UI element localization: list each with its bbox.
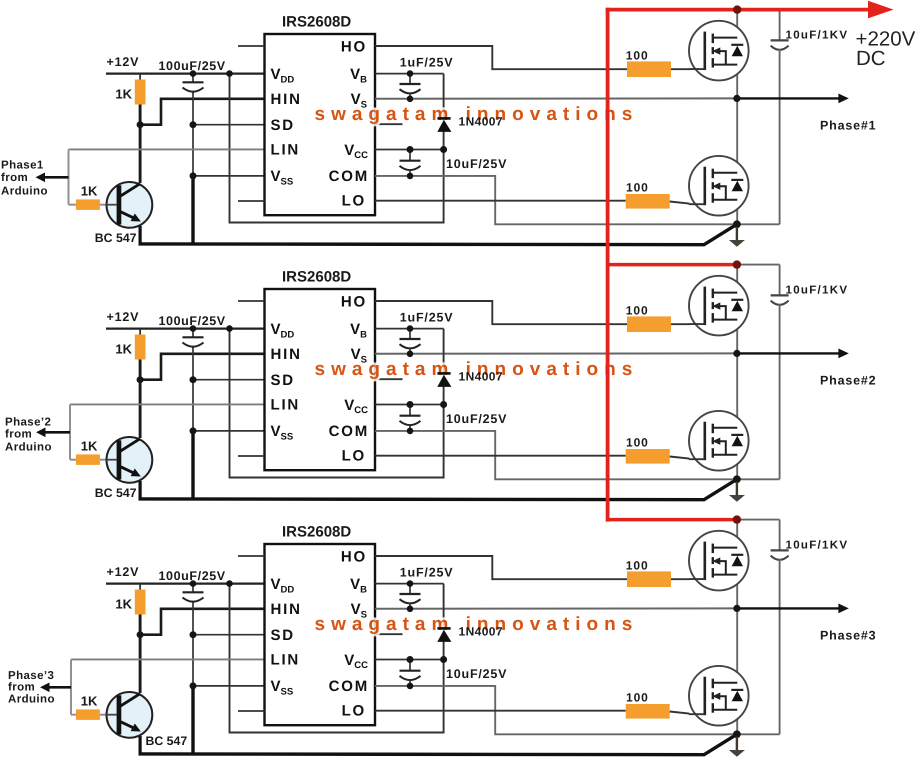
mosfet M3b gate bar	[703, 677, 706, 716]
svg-text:100: 100	[626, 303, 649, 317]
capacitor C3d 10uF/1KV bus	[737, 519, 780, 521]
wire VCC (stage 3)	[375, 659, 444, 661]
wire LO to gate resistor R3d	[375, 710, 626, 712]
wire drain of M1b from phase node	[736, 98, 738, 172]
transistor Q2 base bar	[117, 440, 122, 479]
svg-text:from: from	[1, 172, 28, 184]
wire collector column (stage 2)	[139, 360, 142, 439]
svg-text:Phase’3: Phase’3	[8, 670, 54, 682]
resistor R2c 100 high-side gate	[627, 316, 671, 332]
transistor Q3 emitter stroke with arrow	[120, 721, 134, 728]
wire SD to U3 (stage 3)	[193, 634, 265, 636]
wire +12V feed column (stage 3)	[230, 584, 444, 733]
svg-text:1K: 1K	[115, 342, 132, 357]
transistor Q3 base bar	[117, 695, 122, 734]
wire +12V feed column (stage 2)	[230, 329, 444, 478]
wire base resistor to Q1 (stage 1)	[100, 204, 107, 206]
wire HIN jog from R3a bottom to U3 HIN	[140, 609, 264, 635]
wire input loop vertical (stage 3)	[70, 659, 72, 714]
wire SD to U2 (stage 2)	[193, 379, 265, 381]
wire LIN from input loop to U3	[71, 658, 265, 660]
pin stub right SD-row of U1	[375, 123, 403, 125]
capacitor C3c 10uF/25V	[409, 660, 411, 671]
ground bus (stage 2)	[139, 479, 737, 499]
wire HIN jog from R1a bottom to U1 HIN	[140, 99, 264, 125]
phase output arrow (stage 2)	[737, 352, 839, 354]
resistor R3a 1K collector pull-up	[135, 590, 146, 615]
svg-text:IRS2608D: IRS2608D	[282, 268, 351, 285]
diode D1 1N4007 bootstrap	[437, 117, 450, 120]
mosfet M2b body diode	[731, 434, 743, 436]
svg-text:COM: COM	[329, 168, 369, 185]
capacitor C2b 1uF/25V bootstrap	[409, 329, 411, 339]
wire COM to low-side ground node (stage 2)	[375, 431, 780, 479]
wire R3c to gate of M3a	[671, 578, 689, 580]
capacitor C3a 100uF/25V	[192, 584, 194, 593]
wire +12V feed column (stage 1)	[230, 74, 444, 223]
mosfet M1b body link with arrow	[718, 186, 726, 200]
pin stub top-left of U2	[238, 300, 265, 302]
pin stub right SD-row of U3	[375, 633, 403, 635]
driver IC U2 IRS2608D box	[265, 289, 376, 470]
node dot stage2 DC bus	[733, 260, 741, 268]
transistor Q1 BC547 body	[106, 182, 152, 228]
svg-text:Phase#3: Phase#3	[820, 628, 876, 642]
wire R1c to gate of M1a	[671, 68, 689, 70]
resistor R3d 100 low-side gate	[626, 704, 670, 719]
capacitor C1c 10uF/25V	[409, 150, 411, 161]
wire HO to gate resistor R2c	[375, 301, 627, 324]
wire VB (stage 2)	[375, 328, 444, 330]
pin stub bottom-left of U1	[238, 200, 265, 202]
arrow to Arduino (stage 3)	[49, 686, 72, 689]
wire VSS to U2 (stage 2)	[193, 430, 265, 432]
wire R1a top stub (stage 1)	[139, 74, 141, 81]
ground node dot (stage 2)	[733, 475, 741, 483]
mosfet M2a body link with arrow	[718, 306, 726, 320]
wire +12V rail to VDD (stage 2)	[106, 328, 265, 330]
pin stub top-left of U1	[238, 45, 265, 47]
wire drain of M3b from phase node	[736, 608, 738, 682]
svg-text:BC 547: BC 547	[95, 231, 137, 245]
mosfet M3b body link with arrow	[718, 696, 726, 710]
svg-text:BC 547: BC 547	[146, 734, 188, 748]
node dot stage1 DC bus	[733, 5, 741, 13]
wire input loop vertical (stage 1)	[68, 149, 70, 204]
transistor Q2 BC547 body	[106, 437, 152, 483]
wire base resistor to Q2 (stage 2)	[100, 459, 107, 461]
svg-text:10uF/25V: 10uF/25V	[446, 667, 507, 681]
mosfet M2b body link with arrow	[718, 441, 726, 455]
wire bootstrap diode column (stage 2)	[443, 329, 445, 405]
wire source of M1a to phase node	[736, 65, 738, 99]
wire base resistor to Q3 (stage 3)	[100, 714, 107, 716]
mosfet M1a gate bar	[703, 32, 706, 71]
wire LIN from input loop to U1	[69, 148, 265, 150]
svg-text:SD: SD	[271, 117, 295, 134]
mosfet M1b channel dashes	[712, 169, 714, 179]
mosfet M2a body circle	[689, 276, 749, 336]
mosfet M3a body link with arrow	[718, 561, 726, 575]
svg-text:1uF/25V: 1uF/25V	[400, 55, 454, 69]
wire R1d to gate of M1b	[670, 202, 690, 204]
svg-text:10uF/1KV: 10uF/1KV	[786, 540, 849, 552]
capacitor C3b 1uF/25V bootstrap	[409, 584, 411, 594]
mosfet M3a drain link	[713, 547, 738, 549]
wire HO to gate resistor R1c	[375, 46, 627, 69]
mosfet M3b body diode	[731, 689, 743, 691]
wire source of M2b to ground node	[736, 455, 738, 480]
wire HIN jog from R2a bottom to U2 HIN	[140, 354, 264, 380]
svg-text:1K: 1K	[115, 87, 132, 102]
ground symbol (stage 2)	[736, 482, 738, 495]
transistor Q2 collector stroke	[120, 439, 140, 452]
phase output arrow (stage 3)	[737, 607, 839, 609]
wire LO to gate resistor R1d	[375, 200, 626, 202]
svg-text:1K: 1K	[81, 438, 98, 453]
wire VB (stage 1)	[375, 73, 444, 75]
svg-text:HO: HO	[341, 38, 367, 55]
wire red DC bus top rail	[606, 8, 870, 12]
wire VCC (stage 1)	[375, 149, 444, 151]
svg-text:from: from	[5, 428, 32, 440]
wire source of M1b to ground node	[736, 200, 738, 225]
wire drain of M1a to DC bus	[736, 10, 738, 38]
resistor R2a 1K collector pull-up	[135, 335, 146, 360]
mosfet M2b channel dashes	[712, 424, 714, 434]
wire collector column (stage 1)	[139, 105, 142, 184]
svg-text:HO: HO	[341, 548, 367, 565]
svg-text:LO: LO	[342, 448, 366, 465]
svg-text:Phase’2: Phase’2	[5, 417, 51, 429]
capacitor C1b 1uF/25V bootstrap	[409, 74, 411, 84]
wire emitter of Q1 to ground bus	[139, 226, 142, 244]
mosfet M2a drain link	[713, 292, 738, 294]
capacitor C1a 100uF/25V	[192, 74, 194, 83]
transistor Q2 emitter stroke with arrow	[120, 466, 134, 473]
svg-text:LIN: LIN	[271, 652, 301, 669]
svg-text:Phase1: Phase1	[1, 159, 44, 171]
mosfet M2b gate lead	[689, 458, 705, 460]
svg-text:+12V: +12V	[107, 310, 140, 324]
mosfet M1a gate lead	[689, 68, 705, 70]
ground node dot (stage 1)	[733, 220, 741, 228]
mosfet M3a body diode	[731, 554, 743, 556]
mosfet M3b body circle	[689, 666, 749, 726]
transistor Q3 BC547 body	[106, 692, 152, 738]
wire +12V rail to VDD (stage 3)	[106, 582, 265, 584]
wire red DC bus vertical	[606, 8, 610, 522]
resistor R1b 1K base	[76, 199, 100, 210]
wire drain of M3a to DC bus	[736, 520, 738, 548]
svg-text:100: 100	[626, 558, 649, 572]
transistor Q1 collector stroke	[120, 184, 140, 197]
mosfet M1a body circle	[689, 21, 749, 81]
mosfet M1b gate lead	[689, 203, 705, 205]
node dots (stage 1)	[190, 70, 197, 77]
diode D2 1N4007 bootstrap	[437, 372, 450, 375]
ground symbol (stage 3)	[736, 737, 738, 750]
wire VSS to U3 (stage 3)	[193, 685, 265, 687]
svg-text:LIN: LIN	[271, 142, 301, 159]
svg-text:HIN: HIN	[271, 91, 302, 108]
svg-text:1N4007: 1N4007	[459, 624, 503, 638]
svg-text:100: 100	[626, 48, 649, 62]
wire VS / phase rail (stage 3)	[375, 607, 737, 609]
capacitor C2a 100uF/25V	[192, 329, 194, 338]
svg-text:1N4007: 1N4007	[459, 114, 503, 128]
mosfet M2a gate bar	[703, 287, 706, 326]
resistor R3b 1K base	[76, 709, 100, 720]
wire drain of M2a to DC bus	[736, 265, 738, 293]
svg-text:1K: 1K	[81, 693, 98, 708]
mosfet M1b source link	[713, 199, 738, 201]
wire +12V rail to VDD (stage 1)	[106, 72, 265, 74]
wire HO to gate resistor R3c	[375, 556, 627, 579]
wire LIN from input loop to U2	[70, 403, 265, 405]
svg-text:BC 547: BC 547	[95, 486, 137, 500]
driver IC U1 IRS2608D box	[265, 34, 376, 215]
mosfet M3b drain link	[713, 682, 738, 684]
wire R2a top stub (stage 2)	[139, 329, 141, 336]
svg-text:10uF/25V: 10uF/25V	[446, 157, 507, 171]
mosfet M1a body link with arrow	[718, 51, 726, 65]
arrow to Arduino (stage 1)	[44, 176, 69, 179]
mosfet M2b source link	[713, 454, 738, 456]
svg-text:10uF/1KV: 10uF/1KV	[786, 285, 849, 297]
wire red branch to stage 3	[608, 518, 737, 522]
wire R3a top stub (stage 3)	[139, 584, 141, 591]
svg-text:10uF/25V: 10uF/25V	[446, 412, 507, 426]
resistor R1a 1K collector pull-up	[135, 80, 146, 105]
wire VSS to U1 (stage 1)	[193, 175, 265, 177]
ground symbol (stage 1)	[736, 227, 738, 240]
mosfet M2a body diode	[731, 299, 743, 301]
svg-text:SD: SD	[271, 627, 295, 644]
transistor Q3 base lead	[106, 714, 117, 716]
transistor Q3 collector stroke	[120, 694, 140, 707]
svg-text:Phase#1: Phase#1	[820, 118, 876, 132]
wire source of M3b to ground node	[736, 710, 738, 735]
mosfet M3a gate lead	[689, 578, 705, 580]
transistor Q1 base bar	[117, 185, 122, 224]
svg-text:1N4007: 1N4007	[459, 369, 503, 383]
mosfet M2b drain link	[713, 427, 738, 429]
wire COM to low-side ground node (stage 3)	[375, 686, 780, 734]
svg-text:100: 100	[626, 436, 649, 450]
svg-text:+12V: +12V	[107, 55, 140, 69]
mosfet M1b body diode	[731, 179, 743, 181]
svg-text:LIN: LIN	[271, 397, 301, 414]
mosfet M2a source link	[713, 319, 738, 321]
svg-text:Arduino: Arduino	[8, 694, 55, 706]
ground bus (stage 1)	[139, 224, 737, 244]
mosfet M2a channel dashes	[712, 289, 714, 299]
svg-text:DC: DC	[856, 47, 886, 70]
mosfet M1a drain link	[713, 37, 738, 39]
svg-text:SD: SD	[271, 372, 295, 389]
mosfet M3b source link	[713, 709, 738, 711]
svg-text:Phase#2: Phase#2	[820, 373, 876, 387]
wire VSS column to ground bus (stage 1)	[191, 176, 194, 244]
mosfet M3b gate lead	[689, 713, 705, 715]
svg-text:10uF/1KV: 10uF/1KV	[786, 30, 849, 42]
wire drain of M2b from phase node	[736, 353, 738, 427]
svg-text:HO: HO	[341, 293, 367, 310]
mosfet M3a source link	[713, 574, 738, 576]
svg-text:from: from	[8, 681, 35, 693]
wire red branch to stage 2	[608, 263, 737, 267]
mosfet M1b body circle	[689, 156, 749, 216]
ground bus (stage 3)	[139, 734, 737, 754]
pin stub top-left of U3	[238, 555, 265, 557]
mosfet M1a body diode	[731, 44, 743, 46]
wire input loop vertical (stage 2)	[69, 404, 71, 459]
wire VCC (stage 2)	[375, 404, 444, 406]
mosfet M3a gate bar	[703, 542, 706, 581]
mosfet M1b drain link	[713, 172, 738, 174]
wire R2d to gate of M2b	[670, 457, 690, 459]
capacitor C1d 10uF/1KV bus	[779, 10, 781, 41]
node dots (stage 3)	[190, 580, 197, 587]
mosfet M2b gate bar	[703, 422, 706, 461]
wire emitter of Q3 to ground bus	[139, 736, 142, 754]
wire R3d to gate of M3b	[670, 712, 690, 714]
wire bootstrap diode column (stage 1)	[443, 74, 445, 150]
wire input loop to base resistor (stage 3)	[71, 714, 76, 716]
svg-text:HIN: HIN	[271, 346, 302, 363]
mosfet M1b gate bar	[703, 167, 706, 206]
svg-text:+12V: +12V	[107, 565, 140, 579]
wire input loop to base resistor (stage 1)	[69, 204, 76, 206]
resistor R1c 100 high-side gate	[627, 61, 671, 77]
resistor R2b 1K base	[76, 454, 100, 465]
svg-text:1uF/25V: 1uF/25V	[400, 565, 454, 579]
wire VB (stage 3)	[375, 583, 444, 585]
wire VS / phase rail (stage 2)	[375, 352, 737, 354]
transistor Q2 base lead	[106, 459, 117, 461]
wire source of M2a to phase node	[736, 320, 738, 354]
wire emitter of Q2 to ground bus	[139, 481, 142, 499]
phase output arrow (stage 1)	[737, 97, 839, 99]
mosfet M2b body circle	[689, 411, 749, 471]
resistor R1d 100 low-side gate	[626, 194, 670, 209]
svg-text:IRS2608D: IRS2608D	[282, 13, 351, 30]
ground node dot (stage 3)	[733, 730, 741, 738]
svg-text:100: 100	[626, 691, 649, 705]
wire VSS column to ground bus (stage 2)	[191, 431, 194, 499]
svg-text:LO: LO	[342, 193, 366, 210]
mosfet M1a channel dashes	[712, 34, 714, 44]
diode D3 1N4007 bootstrap	[437, 627, 450, 630]
svg-text:COM: COM	[329, 678, 369, 695]
pin stub bottom-left of U3	[238, 710, 265, 712]
svg-text:1K: 1K	[115, 597, 132, 612]
capacitor C2d 10uF/1KV bus	[737, 264, 780, 266]
node dot stage3 DC bus	[733, 515, 741, 523]
svg-text:COM: COM	[329, 423, 369, 440]
svg-text:1uF/25V: 1uF/25V	[400, 310, 454, 324]
wire bootstrap diode column (stage 3)	[443, 584, 445, 660]
svg-text:Arduino: Arduino	[1, 185, 48, 197]
svg-text:100: 100	[626, 181, 649, 195]
arrow to Arduino (stage 2)	[45, 431, 71, 434]
node dots (stage 2)	[190, 325, 197, 332]
transistor Q1 base lead	[106, 204, 117, 206]
pin stub bottom-left of U2	[238, 455, 265, 457]
svg-text:IRS2608D: IRS2608D	[282, 523, 351, 540]
mosfet M3a body circle	[689, 531, 749, 591]
resistor R2d 100 low-side gate	[626, 449, 670, 464]
mosfet M3b channel dashes	[712, 679, 714, 689]
wire SD to U1 (stage 1)	[193, 124, 265, 126]
wire LO to gate resistor R2d	[375, 455, 626, 457]
resistor R3c 100 high-side gate	[627, 571, 671, 587]
wire R2c to gate of M2a	[671, 323, 689, 325]
wire VS / phase rail (stage 1)	[375, 97, 737, 99]
svg-text:1K: 1K	[81, 183, 98, 198]
wire source of M3a to phase node	[736, 575, 738, 609]
svg-text:HIN: HIN	[271, 601, 302, 618]
mosfet M3a channel dashes	[712, 544, 714, 554]
capacitor C2c 10uF/25V	[409, 405, 411, 416]
red DC bus arrowhead	[868, 1, 894, 19]
wire collector column (stage 3)	[139, 615, 142, 694]
svg-text:LO: LO	[342, 703, 366, 720]
wire VSS column to ground bus (stage 3)	[191, 686, 194, 754]
driver IC U3 IRS2608D box	[265, 544, 376, 725]
mosfet M1a source link	[713, 64, 738, 66]
wire input loop to base resistor (stage 2)	[70, 459, 76, 461]
transistor Q1 emitter stroke with arrow	[120, 211, 134, 218]
wire COM to low-side ground node (stage 1)	[375, 176, 780, 224]
pin stub right SD-row of U2	[375, 378, 403, 380]
mosfet M2a gate lead	[689, 323, 705, 325]
svg-text:Arduino: Arduino	[5, 441, 52, 453]
